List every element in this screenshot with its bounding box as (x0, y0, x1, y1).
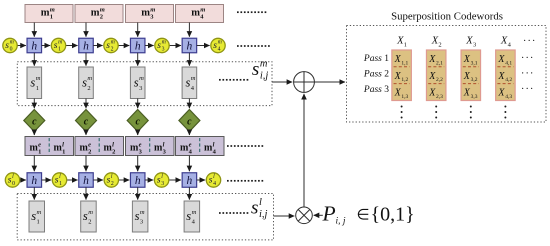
state circle s0^m (3, 38, 17, 52)
svg-text:m: m (100, 6, 105, 13)
codeword column X2 (426, 50, 446, 101)
svg-text:m: m (260, 59, 268, 70)
wire (314, 214, 323, 216)
svg-text:2: 2 (88, 148, 91, 155)
svg-text:m: m (36, 75, 41, 82)
svg-text:m: m (111, 40, 115, 46)
wire (188, 23, 190, 37)
svg-text:i,j: i,j (259, 209, 268, 220)
svg-text:m: m (218, 40, 222, 46)
svg-text:m: m (150, 6, 155, 13)
wire (272, 81, 292, 83)
svg-text:s: s (252, 59, 259, 80)
dots after message boxes (237, 11, 266, 13)
svg-text:c: c (32, 116, 37, 127)
svg-text:P: P (322, 201, 336, 225)
svg-text:m: m (87, 75, 92, 82)
svg-text:X: X (463, 54, 471, 65)
svg-text:X: X (394, 88, 402, 99)
svg-text:c: c (84, 116, 89, 127)
svg-text:h: h (187, 175, 193, 187)
wire (119, 179, 130, 181)
wire (169, 45, 181, 47)
svg-text:1: 1 (59, 181, 62, 187)
vertical dots under X2 (435, 106, 437, 119)
codewords dotted box (347, 26, 547, 123)
message box m4^m (176, 5, 224, 23)
wire (85, 99, 87, 109)
composite box m1^e|m1^l (25, 137, 74, 156)
svg-text:0: 0 (12, 181, 15, 187)
wire (42, 45, 51, 47)
wire (33, 99, 35, 109)
wire (85, 156, 87, 172)
svg-text:3: 3 (473, 42, 476, 49)
svg-text:X: X (497, 71, 505, 82)
wire (145, 179, 153, 181)
svg-text:1: 1 (37, 219, 40, 226)
svg-text:1: 1 (404, 42, 407, 49)
svg-text:2,2: 2,2 (436, 77, 443, 83)
svg-text:Pass 2: Pass 2 (363, 70, 389, 80)
svg-text:1: 1 (36, 85, 39, 92)
state circle s3^l (154, 173, 168, 187)
state circle s1^m (51, 38, 65, 52)
wire (137, 53, 139, 66)
wire (33, 187, 35, 199)
codeword column X1 (392, 50, 412, 101)
encoder box h (row2 col4) (182, 173, 197, 188)
svg-text:m: m (41, 8, 50, 19)
svg-text:h: h (135, 41, 141, 53)
encoder box h (row1 col2) (79, 38, 94, 53)
spreader diamond c3 (127, 110, 148, 132)
svg-text:l: l (259, 197, 262, 208)
svg-text:m: m (50, 6, 55, 13)
multiplier node (296, 207, 313, 224)
svg-text:m: m (191, 8, 200, 19)
svg-text:X: X (428, 71, 436, 82)
message box m2^m (75, 5, 123, 23)
encoder box h (row1 col1) (27, 38, 42, 53)
dots after composite row (227, 145, 263, 147)
svg-text:3,3: 3,3 (471, 94, 478, 100)
svg-text:···: ··· (521, 69, 535, 80)
svg-text:h: h (83, 175, 89, 187)
composite box m2^e|m2^l (75, 137, 124, 156)
svg-text:4,1: 4,1 (505, 60, 512, 66)
svg-text:4: 4 (213, 181, 216, 187)
svg-text:0: 0 (10, 47, 13, 53)
spreader diamond c1 (24, 110, 45, 132)
svg-text:2: 2 (111, 47, 114, 53)
encoder box h (row2 col3) (130, 173, 145, 188)
svg-text:2: 2 (88, 219, 91, 226)
wire (85, 23, 87, 37)
svg-text:X: X (428, 54, 436, 65)
spreader diamond c2 (76, 110, 97, 132)
dots after row2 (227, 180, 263, 182)
wire (20, 179, 26, 181)
svg-text:3: 3 (139, 85, 142, 92)
wire (85, 53, 87, 66)
composite box m3^e|m3^l (126, 137, 175, 156)
svg-text:1: 1 (58, 47, 61, 53)
svg-text:i, j: i, j (336, 217, 346, 227)
state circle s1^l (52, 173, 66, 187)
buffer box s4^m (182, 67, 197, 99)
encoder box h (row1 col4) (182, 38, 197, 53)
svg-text:X: X (463, 71, 471, 82)
svg-text:2: 2 (112, 148, 115, 155)
svg-text:1,2: 1,2 (401, 77, 408, 83)
wire (303, 94, 305, 207)
svg-text:X: X (497, 54, 505, 65)
wire (85, 187, 87, 199)
svg-text:3: 3 (140, 219, 143, 226)
wire (33, 23, 35, 37)
dots after row1 (237, 45, 270, 47)
svg-text:s: s (82, 76, 87, 90)
state circle s2^m (104, 38, 118, 52)
svg-text:∈: ∈ (357, 208, 370, 224)
dashed container box s_ij^m (17, 62, 272, 106)
svg-text:m: m (91, 8, 100, 19)
svg-text:m: m (139, 75, 144, 82)
wire (145, 45, 154, 47)
svg-text:X: X (428, 88, 436, 99)
vertical dots under X3 (470, 106, 472, 119)
svg-text:4,2: 4,2 (505, 77, 512, 83)
svg-text:···: ··· (523, 36, 537, 47)
wire (314, 81, 345, 83)
wire (93, 45, 102, 47)
wire (67, 179, 78, 181)
svg-text:2,1: 2,1 (436, 60, 443, 66)
wire (188, 132, 190, 136)
svg-text:3: 3 (162, 47, 165, 53)
state circle s3^m (155, 38, 169, 52)
svg-text:m: m (58, 40, 62, 46)
svg-text:s: s (83, 209, 88, 223)
wire (188, 99, 190, 109)
svg-text:s: s (31, 209, 36, 223)
svg-text:1: 1 (50, 13, 53, 20)
svg-text:2: 2 (111, 181, 114, 187)
svg-text:2: 2 (87, 85, 90, 92)
svg-text:1: 1 (38, 148, 41, 155)
svg-text:X: X (394, 71, 402, 82)
svg-text:c: c (187, 116, 192, 127)
dots inside dashed box (219, 79, 248, 81)
svg-text:s: s (134, 76, 139, 90)
buffer box s1^m (27, 67, 42, 99)
state circle s0^l (5, 173, 19, 187)
svg-text:2: 2 (438, 42, 441, 49)
svg-text:1,1: 1,1 (401, 60, 408, 66)
wire (137, 132, 139, 136)
svg-text:s: s (186, 209, 191, 223)
spreader diamond c4 (179, 110, 200, 132)
svg-text:Superposition Codewords: Superposition Codewords (391, 10, 503, 22)
message box m3^m (126, 5, 174, 23)
wire (33, 132, 35, 136)
svg-text:3,1: 3,1 (471, 60, 478, 66)
composite box m4^e|m4^l (176, 137, 225, 156)
buffer box s4^m (bottom) (184, 201, 200, 232)
svg-text:4,3: 4,3 (505, 94, 512, 100)
svg-text:2: 2 (100, 13, 103, 20)
wire (188, 53, 190, 66)
wire (85, 132, 87, 136)
svg-text:s: s (251, 198, 258, 219)
wire (188, 187, 190, 199)
message box m1^m (25, 5, 73, 23)
svg-text:m: m (10, 40, 14, 46)
svg-text:h: h (83, 41, 89, 53)
wire (137, 187, 139, 199)
wire (93, 179, 103, 181)
vertical dots under X4 (504, 106, 506, 119)
wire (137, 23, 139, 37)
wire (188, 156, 190, 172)
svg-text:3,2: 3,2 (471, 77, 478, 83)
wire (33, 53, 35, 66)
wire (17, 45, 26, 47)
state circle s4^l (206, 173, 220, 187)
svg-text:Pass 3: Pass 3 (363, 85, 389, 95)
svg-text:m: m (192, 209, 197, 216)
svg-text:m: m (200, 6, 205, 13)
svg-text:c: c (135, 116, 140, 127)
svg-text:3: 3 (161, 181, 164, 187)
wire (137, 156, 139, 172)
wire (66, 45, 78, 47)
svg-text:{0,1}: {0,1} (371, 204, 415, 226)
wire (42, 179, 52, 181)
svg-text:X: X (497, 88, 505, 99)
buffer box s2^m (79, 67, 94, 99)
svg-text:h: h (31, 41, 37, 53)
svg-text:Pass 1: Pass 1 (363, 54, 389, 64)
encoder box h (row2 col2) (79, 173, 94, 188)
buffer box s1^m (bottom) (29, 201, 45, 232)
svg-text:m: m (191, 75, 196, 82)
svg-text:4: 4 (218, 47, 221, 53)
wire (197, 179, 205, 181)
svg-text:m: m (140, 209, 145, 216)
svg-text:h: h (31, 175, 37, 187)
wire (33, 156, 35, 172)
state circle s2^l (104, 173, 118, 187)
wire (169, 179, 181, 181)
label P_ij in {0,1} (322, 201, 415, 226)
svg-text:m: m (88, 209, 93, 216)
svg-text:2,3: 2,3 (436, 94, 443, 100)
buffer box s2^m (bottom) (81, 201, 97, 232)
buffer box s3^m (bottom) (132, 201, 148, 232)
codeword column X4 (496, 50, 516, 101)
svg-text:s: s (186, 76, 191, 90)
state circle s4^m (211, 38, 225, 52)
codeword column X3 (461, 50, 481, 101)
wire (118, 45, 129, 47)
dashed container box s_ij^l (17, 194, 273, 240)
buffer box s3^m (130, 67, 145, 99)
wire (137, 99, 139, 109)
svg-text:4: 4 (508, 42, 512, 49)
svg-text:h: h (187, 41, 193, 53)
svg-text:h: h (135, 175, 141, 187)
XOR adder node (294, 72, 315, 93)
svg-text:i,j: i,j (260, 71, 269, 82)
encoder box h (row2 col1) (27, 173, 42, 188)
svg-text:···: ··· (521, 53, 535, 64)
dots inside bottom dashed box (219, 212, 248, 214)
svg-text:m: m (37, 209, 42, 216)
svg-text:m: m (141, 8, 150, 19)
encoder box h (row1 col3) (130, 38, 145, 53)
svg-text:1,3: 1,3 (401, 94, 408, 100)
svg-text:s: s (135, 209, 140, 223)
svg-text:s: s (30, 76, 35, 90)
wire (197, 45, 210, 47)
svg-text:1: 1 (62, 148, 65, 155)
svg-text:m: m (162, 40, 166, 46)
vertical dots under X1 (401, 106, 403, 119)
svg-text:X: X (463, 88, 471, 99)
svg-text:X: X (394, 54, 402, 65)
wire (274, 215, 295, 217)
svg-text:···: ··· (521, 84, 535, 95)
